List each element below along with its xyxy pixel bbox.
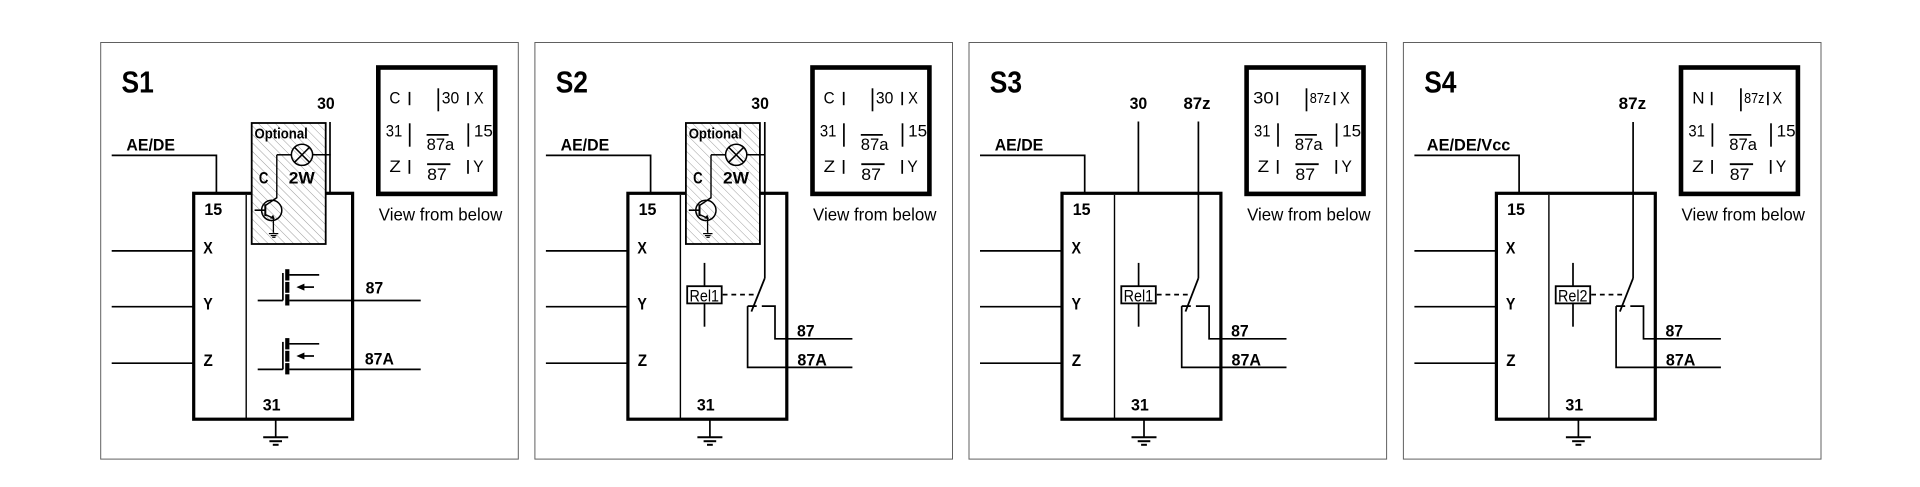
svg-text:31: 31	[1688, 122, 1705, 141]
svg-text:S1: S1	[122, 66, 154, 100]
svg-text:30: 30	[442, 88, 460, 107]
svg-text:31: 31	[263, 397, 281, 415]
svg-text:87z: 87z	[1184, 95, 1211, 113]
svg-text:31: 31	[1254, 122, 1271, 141]
svg-text:S4: S4	[1424, 66, 1456, 100]
svg-text:View from below: View from below	[1247, 204, 1371, 224]
svg-text:View from below: View from below	[813, 204, 937, 224]
svg-text:2W: 2W	[723, 169, 750, 187]
svg-text:N: N	[1692, 88, 1704, 107]
svg-text:30: 30	[1253, 88, 1273, 107]
svg-text:87z: 87z	[1744, 90, 1764, 107]
svg-text:Y: Y	[1776, 157, 1787, 176]
svg-text:Rel1: Rel1	[690, 286, 720, 305]
svg-text:87z: 87z	[1619, 95, 1647, 113]
svg-text:87a: 87a	[861, 135, 889, 154]
svg-text:Y: Y	[1072, 295, 1082, 313]
svg-text:87: 87	[861, 165, 881, 184]
svg-text:87: 87	[1295, 165, 1315, 184]
svg-text:X: X	[1506, 240, 1516, 258]
svg-text:Z: Z	[1692, 157, 1704, 176]
svg-text:X: X	[203, 240, 213, 258]
svg-text:87A: 87A	[797, 351, 827, 369]
svg-text:Z: Z	[824, 157, 836, 176]
svg-text:X: X	[474, 88, 484, 107]
svg-text:87: 87	[1231, 322, 1249, 340]
svg-text:31: 31	[1131, 397, 1149, 415]
svg-text:View from below: View from below	[379, 204, 503, 224]
svg-text:15: 15	[639, 201, 657, 219]
svg-text:X: X	[1072, 240, 1082, 258]
svg-text:87A: 87A	[1666, 351, 1696, 369]
svg-text:87a: 87a	[427, 135, 455, 154]
svg-text:View from below: View from below	[1682, 204, 1806, 224]
svg-text:C: C	[693, 169, 703, 187]
svg-text:87: 87	[427, 165, 447, 184]
svg-text:Y: Y	[473, 157, 484, 176]
svg-text:AE/DE: AE/DE	[995, 137, 1044, 155]
svg-text:Optional: Optional	[255, 127, 308, 143]
svg-text:2W: 2W	[289, 169, 316, 187]
svg-text:Rel2: Rel2	[1558, 286, 1588, 305]
svg-text:87A: 87A	[365, 350, 394, 368]
svg-text:Z: Z	[1072, 352, 1081, 370]
svg-text:AE/DE: AE/DE	[126, 137, 175, 155]
svg-text:87a: 87a	[1729, 135, 1757, 154]
svg-text:X: X	[908, 88, 918, 107]
svg-text:15: 15	[908, 122, 927, 141]
svg-text:30: 30	[1130, 95, 1148, 113]
svg-text:C: C	[389, 88, 400, 107]
svg-text:Y: Y	[1341, 157, 1352, 176]
svg-text:87: 87	[1666, 322, 1684, 340]
svg-text:Z: Z	[1506, 352, 1515, 370]
svg-text:15: 15	[474, 122, 493, 141]
svg-text:31: 31	[1565, 397, 1583, 415]
svg-text:87: 87	[366, 280, 384, 298]
svg-text:Optional: Optional	[689, 127, 742, 143]
svg-text:31: 31	[697, 397, 715, 415]
svg-text:15: 15	[1342, 122, 1361, 141]
svg-text:15: 15	[1073, 201, 1091, 219]
svg-text:Z: Z	[204, 352, 213, 370]
svg-text:87a: 87a	[1295, 135, 1323, 154]
svg-text:15: 15	[1507, 201, 1525, 219]
svg-text:31: 31	[820, 122, 837, 141]
svg-text:30: 30	[876, 88, 894, 107]
svg-text:31: 31	[386, 122, 403, 141]
svg-text:AE/DE: AE/DE	[561, 137, 610, 155]
svg-text:X: X	[1772, 88, 1782, 107]
svg-text:AE/DE/Vcc: AE/DE/Vcc	[1427, 137, 1511, 155]
svg-text:30: 30	[317, 95, 335, 113]
svg-text:X: X	[1340, 88, 1350, 107]
svg-text:Y: Y	[637, 295, 647, 313]
svg-text:87z: 87z	[1310, 90, 1331, 107]
svg-text:87: 87	[1730, 165, 1750, 184]
svg-text:C: C	[259, 169, 269, 187]
svg-text:Z: Z	[389, 157, 401, 176]
svg-text:Z: Z	[638, 352, 647, 370]
svg-text:S2: S2	[556, 66, 588, 100]
svg-text:X: X	[637, 240, 647, 258]
svg-text:30: 30	[751, 95, 769, 113]
svg-text:Rel1: Rel1	[1124, 286, 1154, 305]
svg-text:87A: 87A	[1232, 351, 1262, 369]
svg-text:Y: Y	[203, 295, 213, 313]
svg-text:Y: Y	[907, 157, 918, 176]
svg-text:C: C	[824, 88, 835, 107]
svg-text:Y: Y	[1506, 295, 1516, 313]
svg-text:Z: Z	[1258, 157, 1270, 176]
svg-text:15: 15	[1777, 122, 1796, 141]
svg-text:15: 15	[204, 201, 222, 219]
svg-text:S3: S3	[990, 66, 1022, 100]
svg-text:87: 87	[797, 322, 815, 340]
